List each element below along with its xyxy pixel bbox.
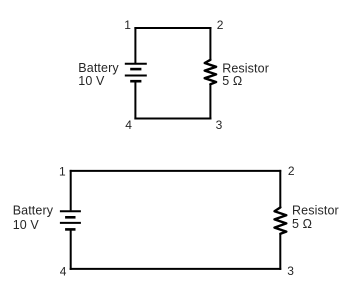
circuit 2: wire from resistor down to node 3 (right side lower) bbox=[279, 234, 281, 270]
svg-text:1: 1 bbox=[124, 18, 131, 32]
circuit 2: wire from node 1 down to battery + terminal (left side upper) bbox=[70, 170, 72, 211]
circuit 1 (top): wire from node 1 to node 2 (top side) bbox=[134, 27, 211, 29]
circuit 1: wire from node 4 to node 3 (bottom side) bbox=[134, 118, 211, 120]
circuit 1: battery long plate 2 bbox=[125, 75, 147, 77]
svg-text:10 V: 10 V bbox=[13, 218, 40, 232]
circuit 1: wire from resistor down to node 3 (right side lower) bbox=[209, 84, 211, 120]
circuit 1: battery long plate 1 (+) bbox=[125, 63, 147, 65]
circuit 2: wire from node 4 to node 3 (bottom side) bbox=[70, 268, 282, 270]
svg-text:Battery: Battery bbox=[78, 61, 119, 75]
svg-text:2: 2 bbox=[217, 18, 224, 32]
svg-text:Battery: Battery bbox=[13, 204, 54, 218]
circuit 2 (bottom): wire from node 1 to node 2 (top side) bbox=[70, 170, 282, 172]
circuit 1: wire from node 2 down to resistor (right side upper) bbox=[209, 27, 211, 60]
circuit 1: resistor zigzag body bbox=[205, 60, 216, 85]
circuit 2: wire from node 2 down to resistor (right side upper) bbox=[279, 170, 281, 208]
svg-text:10 V: 10 V bbox=[78, 74, 105, 88]
circuit 2: resistor zigzag body bbox=[275, 207, 287, 233]
circuit 1: wire from node 1 down to battery + terminal (left side upper) bbox=[134, 27, 136, 63]
circuit 2: battery short plate 2 (-) bbox=[65, 228, 75, 231]
svg-text:3: 3 bbox=[287, 264, 294, 278]
circuit 2: wire from battery - terminal down to node 4 (left side lower) bbox=[70, 229, 72, 270]
circuit 1: battery short plate 1 bbox=[130, 68, 141, 71]
circuit 2: battery long plate 1 (+) bbox=[60, 210, 81, 212]
svg-text:4: 4 bbox=[125, 118, 132, 132]
svg-text:5 Ω: 5 Ω bbox=[292, 217, 312, 231]
circuit 1: wire from battery - terminal down to node 4 (left side lower) bbox=[134, 81, 136, 119]
svg-text:1: 1 bbox=[59, 164, 66, 178]
circuit 1: battery short plate 2 (-) bbox=[130, 80, 141, 83]
svg-text:5 Ω: 5 Ω bbox=[222, 74, 242, 88]
circuit 2: battery long plate 2 bbox=[60, 222, 81, 224]
svg-text:2: 2 bbox=[288, 164, 295, 178]
svg-text:4: 4 bbox=[60, 265, 67, 279]
svg-text:3: 3 bbox=[216, 118, 223, 132]
circuit 2: battery short plate 1 bbox=[65, 216, 75, 219]
svg-text:Resistor: Resistor bbox=[292, 204, 339, 218]
